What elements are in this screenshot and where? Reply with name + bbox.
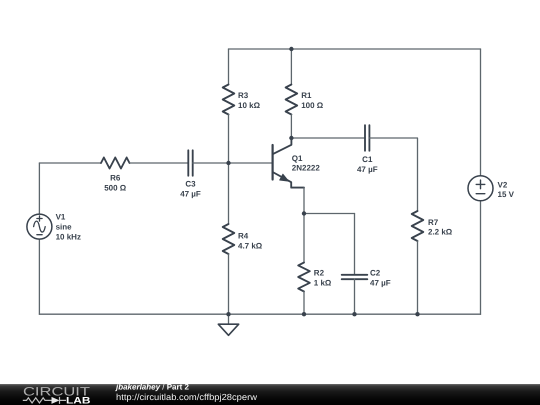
svg-text:http://circuitlab.com/cffbpj28: http://circuitlab.com/cffbpj28cperw (116, 392, 258, 402)
svg-text:C1: C1 (362, 155, 373, 164)
wire R7 bottom lead (417, 241, 419, 314)
svg-text:R4: R4 (238, 231, 249, 240)
wire R4 bottom lead (228, 254, 230, 314)
wire C3 to Q1 base (193, 162, 273, 164)
wire R2 top lead (303, 214, 305, 263)
svg-text:4.7 kΩ: 4.7 kΩ (238, 241, 263, 250)
node top R1 junction (289, 47, 293, 51)
svg-text:C2: C2 (370, 269, 381, 278)
node ground junction (226, 312, 230, 316)
wire R2 bottom lead (303, 292, 305, 315)
wire bottom rail (39, 313, 480, 315)
transistor Q1 (273, 138, 304, 214)
wire collector node to C1 (291, 137, 365, 139)
wire right rail upper (480, 49, 482, 176)
wire R1 bottom lead (290, 115, 292, 139)
svg-text:V1: V1 (56, 213, 66, 222)
svg-text:V2: V2 (498, 180, 508, 189)
wire C1 to R7 corner (369, 138, 417, 211)
svg-text:R7: R7 (428, 218, 439, 227)
svg-text:47 µF: 47 µF (180, 190, 201, 199)
wire R3 bottom lead (228, 115, 230, 164)
voltage source V2 (468, 176, 493, 201)
svg-text:47 µF: 47 µF (357, 165, 378, 174)
svg-text:100 Ω: 100 Ω (301, 101, 324, 110)
svg-text:15 V: 15 V (498, 190, 515, 199)
resistor R7 (412, 211, 424, 241)
svg-text:R1: R1 (301, 91, 312, 100)
wire R4 top lead (228, 163, 230, 224)
wire R6 to C3 (130, 162, 189, 164)
svg-text:2.2 kΩ: 2.2 kΩ (428, 228, 453, 237)
capacitor C2 (342, 275, 368, 279)
svg-text:Q1: Q1 (292, 154, 303, 163)
capacitor C1 (365, 125, 369, 151)
resistor R4 (223, 224, 235, 254)
svg-text:R3: R3 (238, 91, 249, 100)
wire C2 top lead (354, 214, 356, 275)
resistor R3 (223, 85, 235, 115)
wire R1 top lead (290, 49, 292, 85)
svg-text:47 µF: 47 µF (370, 278, 391, 287)
svg-text:1 kΩ: 1 kΩ (314, 278, 332, 287)
resistor R1 (286, 85, 298, 115)
wire emitter node to C2 (304, 213, 355, 215)
svg-text:R2: R2 (314, 269, 325, 278)
resistor R2 (298, 263, 310, 292)
wire top rail (229, 48, 481, 50)
svg-text:2N2222: 2N2222 (292, 164, 321, 173)
svg-text:jbakerlahey / Part 2: jbakerlahey / Part 2 (115, 383, 189, 392)
node base junction (226, 161, 230, 165)
voltage source V1 (27, 214, 52, 239)
wire left rail lower (38, 239, 40, 314)
node C2 bottom junction (352, 312, 356, 316)
resistor R6 (101, 158, 129, 169)
node collector junction (289, 136, 293, 140)
ground (218, 314, 238, 335)
svg-text:C3: C3 (185, 180, 196, 189)
wire left rail upper (38, 163, 40, 214)
svg-text:10 kHz: 10 kHz (56, 233, 81, 242)
wire R3 top lead (228, 49, 230, 85)
svg-text:500 Ω: 500 Ω (104, 184, 127, 193)
node emitter junction (302, 211, 306, 215)
node R7 bottom junction (415, 312, 419, 316)
wire V1 to R6 (39, 162, 101, 164)
node R2 bottom junction (302, 312, 306, 316)
wire C2 bottom lead (354, 279, 356, 314)
footer bar (0, 384, 540, 405)
capacitor C3 (188, 150, 192, 175)
svg-text:LAB: LAB (66, 396, 91, 405)
wire right rail lower (480, 201, 482, 314)
svg-text:sine: sine (56, 223, 73, 232)
svg-text:R6: R6 (110, 174, 121, 183)
CircuitLab logo resistor-diode glyph (23, 397, 66, 404)
svg-text:10 kΩ: 10 kΩ (238, 101, 261, 110)
